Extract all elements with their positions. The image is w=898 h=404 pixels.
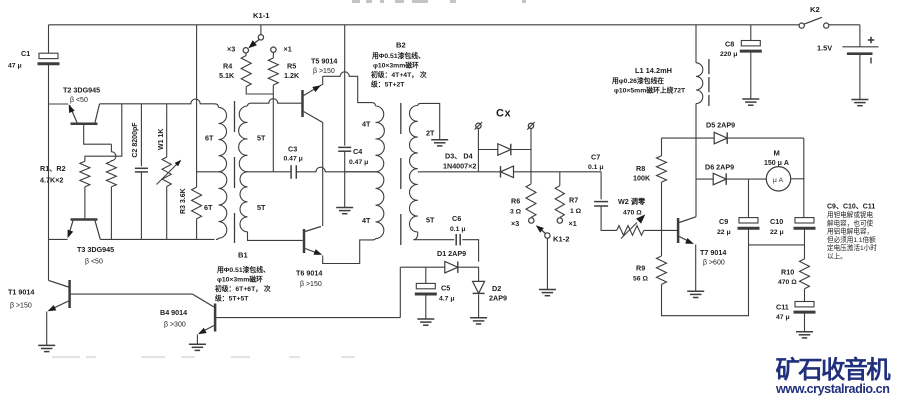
svg-text:100K: 100K (633, 174, 651, 183)
svg-text:R10: R10 (781, 268, 794, 277)
svg-text:1N4007×2: 1N4007×2 (443, 162, 476, 171)
svg-text:级：5T+2T: 级：5T+2T (370, 80, 405, 89)
wire R1 top lead (85, 104, 122, 161)
svg-text:3 Ω: 3 Ω (510, 209, 522, 216)
ground D2 (470, 318, 487, 324)
probe terminal right (527, 122, 535, 130)
transformer B2 right winding (409, 103, 435, 232)
contact x3 of K1-2 (511, 218, 534, 228)
switch K1-2 (536, 225, 570, 243)
wire C2 top (140, 104, 142, 166)
svg-text:×3: ×3 (227, 45, 235, 54)
wire bus ground stem (344, 172, 346, 208)
svg-text:W2 调零: W2 调零 (618, 197, 646, 206)
wire K2 to battery (859, 25, 861, 47)
svg-text:D1 2AP9: D1 2AP9 (437, 249, 466, 258)
resistor R3 (180, 187, 202, 219)
capacitor C2 (132, 122, 148, 172)
note L1 text (611, 76, 686, 95)
svg-text:C9: C9 (719, 217, 728, 226)
wire D2 top (478, 267, 480, 281)
wire C6 to corner (462, 240, 478, 262)
capacitor C8 (720, 40, 762, 59)
resistor R8 (633, 156, 667, 183)
svg-text:C5: C5 (441, 284, 450, 293)
wire T1 emitter stem (46, 312, 48, 346)
svg-text:C6: C6 (452, 214, 461, 223)
wire W2 to T7 base (644, 229, 677, 231)
svg-text:矿石收音机: 矿石收音机 (776, 356, 892, 384)
svg-text:K2: K2 (810, 5, 820, 14)
resistor R4 (219, 53, 251, 87)
svg-text:C10: C10 (770, 217, 783, 226)
wire B4 emitter stem (196, 335, 198, 344)
resistor R6 (510, 172, 536, 218)
svg-text:β >300: β >300 (164, 322, 186, 329)
svg-text:www.crystalradio.cn: www.crystalradio.cn (775, 382, 889, 396)
label D3 D4 (443, 152, 476, 171)
svg-text:4.7K×2: 4.7K×2 (40, 176, 63, 185)
wire B1 right tap to bus (248, 171, 274, 173)
capacitor C5 (415, 267, 455, 319)
transistor T6 (296, 227, 323, 289)
wire battery to ground (859, 54, 861, 99)
svg-text:用φ0.26漆包线在: 用φ0.26漆包线在 (611, 76, 664, 85)
wire T2 emitter feed (49, 103, 69, 105)
svg-text:56 Ω: 56 Ω (633, 276, 648, 283)
svg-text:C9、C10、C11: C9、C10、C11 (827, 204, 875, 211)
wire B1 right bottom to T6 base (248, 232, 303, 241)
svg-text:6T: 6T (205, 134, 214, 143)
wire B2 right bottom lead (413, 232, 417, 240)
svg-text:5T: 5T (257, 203, 266, 212)
svg-text:β <50: β <50 (70, 97, 88, 104)
wire T3 emitter from rail (49, 238, 68, 240)
svg-text:但必须用1.1倍额: 但必须用1.1倍额 (827, 235, 876, 244)
svg-text:D2: D2 (492, 284, 501, 293)
svg-text:C8: C8 (725, 40, 734, 49)
svg-text:4T: 4T (362, 120, 371, 129)
ground C5 (417, 319, 434, 325)
wire D3 cathode (511, 149, 531, 151)
ground B4 (189, 344, 206, 350)
svg-text:R8: R8 (636, 164, 645, 173)
wire B1 left tap (197, 171, 219, 173)
wire R2 drop with hop (111, 144, 116, 161)
svg-text:C1: C1 (21, 49, 30, 58)
svg-text:R1、R2: R1、R2 (40, 164, 66, 173)
transistor T7 (678, 217, 726, 267)
wire D4 to right (514, 171, 602, 173)
wire C11 to ground (804, 312, 806, 331)
svg-text:R4: R4 (223, 62, 232, 71)
svg-text:220 μ: 220 μ (720, 51, 737, 58)
meter M (764, 149, 791, 192)
svg-text:T3 3DG945: T3 3DG945 (77, 245, 114, 254)
svg-text:μ A: μ A (773, 177, 784, 184)
wire D1 segment (400, 266, 445, 268)
capacitor C1 (8, 49, 60, 70)
wire L1 to D6 node (695, 104, 697, 139)
wire meter to C10 line (791, 178, 805, 180)
svg-text:B1: B1 (238, 251, 248, 260)
wire base junction to R9 (661, 230, 663, 256)
capacitor C6 (450, 214, 466, 245)
svg-text:R6: R6 (511, 197, 520, 206)
svg-text:0.47 μ: 0.47 μ (349, 159, 368, 166)
svg-text:1 Ω: 1 Ω (570, 208, 582, 215)
wire T5-T6 shared vertical (322, 129, 324, 226)
diode D2 (473, 281, 507, 302)
svg-text:470 Ω: 470 Ω (778, 279, 797, 286)
svg-text:4T: 4T (362, 216, 371, 225)
wire K1-2 to ground (546, 238, 548, 289)
wire rail to C8 (750, 25, 752, 41)
wire B4 base (216, 317, 400, 319)
wire L1 node continue (695, 138, 697, 179)
svg-text:C2 8200pF: C2 8200pF (132, 122, 139, 158)
svg-text:解电容，也可使: 解电容，也可使 (827, 218, 874, 227)
svg-text:0.1 μ: 0.1 μ (588, 164, 604, 171)
wire R8 to base junction (661, 182, 663, 230)
svg-text:β <50: β <50 (85, 259, 103, 266)
wire T5 emitter to B2 (hop at x345) (323, 72, 376, 106)
wire R4R5 drop to bus (272, 85, 274, 172)
note B2 text (370, 51, 427, 89)
capacitor C10 (770, 217, 816, 236)
transistor T2 (63, 86, 100, 124)
svg-text:0.1 μ: 0.1 μ (450, 226, 466, 233)
wire D5 node to R8 (661, 138, 663, 156)
svg-text:L1 14.2mH: L1 14.2mH (635, 66, 672, 75)
svg-text:2AP9: 2AP9 (489, 294, 507, 303)
diode D6 (705, 163, 734, 185)
svg-text:C4: C4 (353, 147, 362, 156)
wire C9 top (748, 179, 750, 218)
transformer B2 left winding (362, 106, 384, 239)
wire C9 bottom (748, 228, 750, 245)
svg-text:W1 1K: W1 1K (158, 129, 165, 150)
wire C9-C10 link (749, 244, 805, 246)
watermark logo (775, 356, 891, 396)
wire C4 bottom (344, 151, 346, 172)
wire R2 bottom (110, 187, 112, 240)
svg-text:D6 2AP9: D6 2AP9 (705, 163, 734, 172)
svg-text:R5: R5 (287, 62, 296, 71)
ground T1 (38, 345, 55, 351)
svg-text:2T: 2T (426, 129, 435, 138)
svg-text:β >150: β >150 (300, 281, 322, 288)
svg-text:22 μ: 22 μ (770, 229, 784, 236)
svg-text:22 μ: 22 μ (717, 229, 731, 236)
probe terminal left (475, 122, 483, 130)
wire R4 bottom (246, 87, 273, 94)
capacitor C3 (284, 145, 303, 179)
ground T7 (687, 291, 704, 297)
svg-text:1.2K: 1.2K (284, 71, 300, 80)
wire R3 bottom (196, 219, 198, 240)
svg-text:φ10×3mm磁环: φ10×3mm磁环 (217, 275, 263, 284)
svg-text:β >600: β >600 (703, 260, 725, 267)
wire R9 bottom path (662, 245, 749, 316)
ground main bus (336, 208, 353, 214)
svg-text:D5 2AP9: D5 2AP9 (706, 121, 735, 130)
svg-text:φ10×5mm磁环上绕72T: φ10×5mm磁环上绕72T (614, 86, 686, 95)
svg-text:R7: R7 (569, 196, 578, 205)
svg-text:×1: ×1 (284, 45, 292, 54)
switch K2 (799, 5, 829, 28)
note capacitors text (827, 204, 877, 261)
svg-text:B2: B2 (396, 41, 406, 50)
wire D5 rail (662, 137, 804, 139)
wire rail to R3 (through hop) (196, 25, 198, 187)
wire B2 left tap (345, 171, 376, 173)
svg-text:用钽电解或铌电: 用钽电解或铌电 (827, 210, 874, 219)
potentiometer W2 (617, 197, 646, 239)
resistor R5 (268, 52, 300, 85)
potentiometer W1 (157, 129, 182, 187)
svg-text:5T: 5T (257, 134, 266, 143)
contact x1 of K1-2 (557, 218, 577, 228)
wire B1 left winding top from T2 wire (0, 0, 1, 1)
svg-text:R3 3.6K: R3 3.6K (180, 188, 187, 214)
wire C10 bottom (804, 228, 806, 259)
wire C7 to W2 (601, 206, 617, 230)
wire left rail upper (48, 25, 50, 53)
transistor T3 (68, 220, 115, 266)
svg-text:级：5T+5T: 级：5T+5T (214, 294, 249, 303)
wire R10 to C11 (804, 289, 806, 302)
svg-text:1.5V: 1.5V (817, 44, 832, 53)
wire T2 base (84, 125, 112, 144)
wire bus corner to C7 (600, 172, 602, 200)
wire T7 emitter to ground (695, 247, 697, 291)
wire D2 to ground (478, 295, 480, 318)
wire W1 bottom (166, 187, 168, 240)
transistor T1 (8, 280, 70, 311)
svg-text:C7: C7 (591, 153, 600, 162)
svg-text:K1-2: K1-2 (553, 235, 569, 244)
switch K1-1 (227, 11, 292, 54)
label B1 (238, 251, 248, 260)
wire D6 segment (696, 178, 713, 180)
ground C8 (742, 99, 759, 105)
svg-text:×3: ×3 (511, 219, 519, 228)
svg-text:47 μ: 47 μ (8, 63, 22, 70)
wire bus B2tap to D4 (478, 171, 500, 173)
transistor T5 (303, 57, 338, 130)
transformer B1 core (234, 101, 236, 243)
label Cx (496, 108, 511, 120)
transformer B2 core (400, 103, 402, 245)
svg-text:R9: R9 (636, 264, 645, 273)
wire rail to L1 (695, 25, 697, 63)
ground 2T winding (431, 140, 448, 146)
svg-text:β >150: β >150 (313, 68, 335, 75)
svg-text:C3: C3 (288, 145, 297, 154)
battery 1.5V (817, 37, 879, 64)
wire T1 base long wire (71, 293, 193, 295)
svg-text:T7 9014: T7 9014 (700, 248, 726, 257)
svg-text:150 μ A: 150 μ A (764, 160, 789, 167)
label B2 (396, 41, 406, 50)
svg-text:T1 9014: T1 9014 (8, 288, 34, 297)
svg-text:T5 9014: T5 9014 (311, 57, 337, 66)
wire C8 to ground (750, 51, 752, 99)
svg-text:T6 9014: T6 9014 (296, 269, 322, 278)
svg-text:6T: 6T (204, 203, 213, 212)
diode D3 (498, 144, 511, 156)
svg-text:D3、 D4: D3、 D4 (445, 152, 473, 161)
svg-text:用Φ0.51漆包线、: 用Φ0.51漆包线、 (216, 265, 270, 274)
svg-text:β >150: β >150 (10, 303, 32, 310)
wire right probe drop (530, 129, 532, 172)
inductor L1 (635, 59, 709, 106)
wire 5T bottom to C6 (413, 239, 454, 241)
wire T3 collector to B1 (100, 238, 214, 240)
transformer B1 right winding (239, 103, 266, 232)
ground K1-2 (539, 290, 556, 296)
svg-text:47 μ: 47 μ (776, 314, 790, 321)
wire B1 left winding bottom (216, 238, 219, 239)
wire B2 right tap to bus (418, 171, 479, 173)
wire T2 collector to R3 drop (hop at x197) (100, 99, 219, 107)
diode D5 (706, 121, 735, 144)
main bus left segment (273, 167, 375, 172)
wire B2 left bottom lead (323, 239, 376, 264)
svg-text:初级：4T+4T， 次: 初级：4T+4T， 次 (371, 70, 427, 79)
svg-text:以上。: 以上。 (827, 252, 847, 261)
wire T7 collector riser (695, 179, 697, 217)
wire D5 corner to C10 (803, 138, 805, 218)
diode D4 (501, 166, 514, 178)
note B1 text (214, 265, 271, 303)
svg-text:B4 9014: B4 9014 (160, 308, 187, 317)
svg-text:K1-1: K1-1 (253, 11, 270, 20)
diode D1 (437, 249, 466, 273)
wire B2 2T top to ground (421, 103, 440, 139)
svg-text:用铝电解电容，: 用铝电解电容， (827, 227, 873, 236)
resistor R7 (555, 172, 581, 218)
svg-text:4.7 μ: 4.7 μ (439, 296, 455, 303)
capacitor C7 (588, 153, 608, 207)
svg-text:0.47 μ: 0.47 μ (284, 156, 303, 163)
resistor R10 (778, 259, 810, 289)
capacitor C9 (717, 217, 760, 236)
wire D3 anode (478, 149, 497, 151)
transistor B4 (160, 294, 215, 334)
capacitor C4 (338, 147, 368, 166)
svg-text:×1: ×1 (569, 219, 577, 228)
wire D1 cathode to D2 node (458, 266, 479, 268)
resistor R2 (106, 161, 116, 187)
capacitor C11 (776, 302, 816, 322)
wire C2 bottom (140, 172, 142, 239)
wire W1 top (166, 104, 168, 157)
svg-text:470 Ω: 470 Ω (623, 210, 642, 217)
svg-text:C11: C11 (776, 303, 789, 312)
resistor R9 (633, 256, 667, 284)
faint bottom remnants (52, 356, 355, 358)
wire left probe drop (477, 129, 479, 172)
wire R1 bottom to T3 base (84, 187, 86, 219)
svg-text:5.1K: 5.1K (219, 71, 235, 80)
svg-text:Cx: Cx (496, 108, 511, 120)
svg-text:初级：6T+6T， 次: 初级：6T+6T， 次 (215, 284, 271, 293)
svg-text:定电压激活1小时: 定电压激活1小时 (827, 243, 877, 252)
wire left rail lower (48, 64, 50, 281)
wire D6 to meter (726, 178, 766, 180)
wire top supply rail (49, 24, 860, 26)
svg-text:M: M (774, 149, 780, 158)
svg-text:T2 3DG945: T2 3DG945 (63, 86, 100, 95)
cropped title remnants (faint) (352, 0, 526, 3)
svg-text:用Φ0.51漆包线、: 用Φ0.51漆包线、 (371, 51, 425, 60)
transformer B1 left winding (204, 107, 227, 238)
svg-text:φ10×3mm磁环: φ10×3mm磁环 (373, 61, 419, 70)
ground C11 (796, 332, 813, 338)
wire B4 base riser (399, 267, 401, 317)
resistor R1 (40, 161, 90, 187)
wire B1 right top to T5 base (hop at x273) (251, 99, 301, 104)
ground battery (851, 100, 868, 106)
svg-text:5T: 5T (426, 216, 435, 225)
wire rail to C4 (344, 25, 346, 146)
